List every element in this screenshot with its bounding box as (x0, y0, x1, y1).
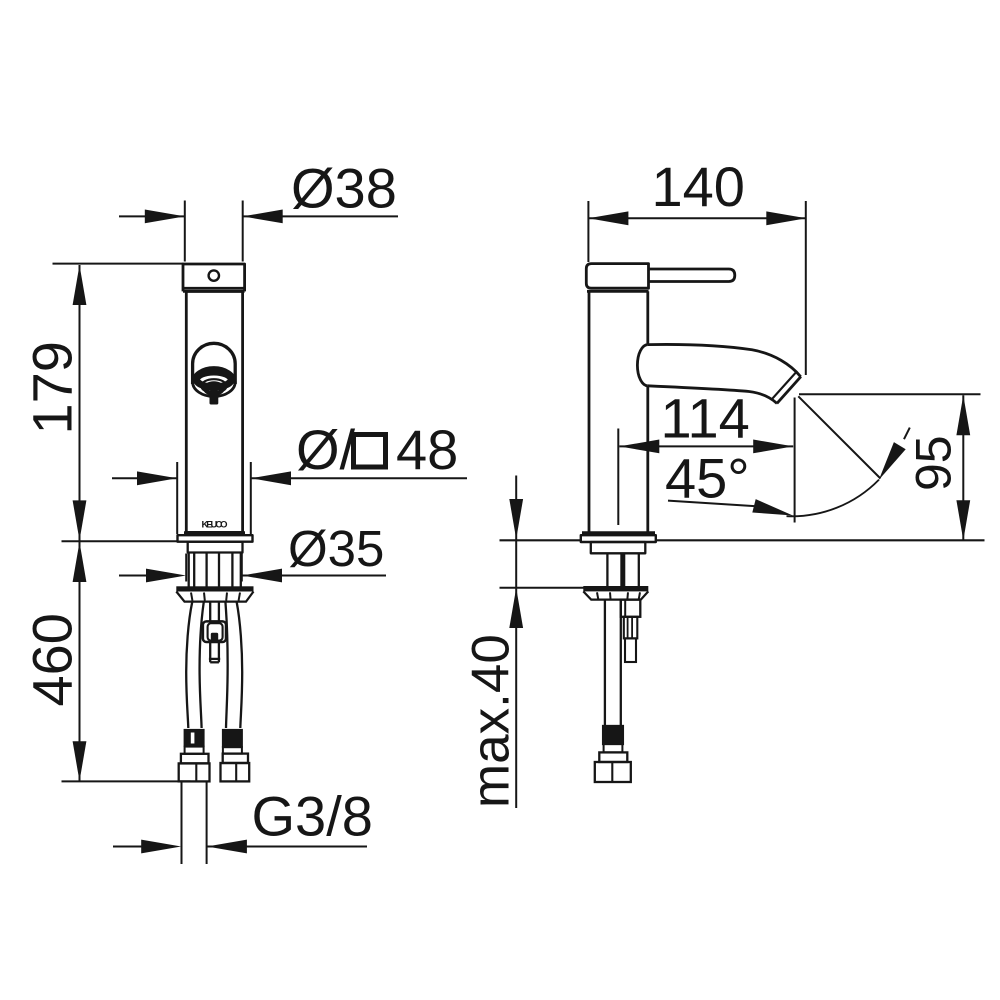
svg-text:95: 95 (906, 435, 962, 491)
svg-text:179: 179 (21, 341, 84, 434)
svg-text:114: 114 (661, 387, 750, 450)
svg-text:45°: 45° (665, 447, 750, 510)
svg-text:KEUCO: KEUCO (202, 520, 228, 531)
svg-text:Ø35: Ø35 (288, 520, 384, 577)
svg-text:48: 48 (396, 418, 458, 481)
svg-text:Ø/: Ø/ (296, 418, 356, 481)
svg-text:140: 140 (652, 155, 745, 218)
svg-text:max.40: max.40 (462, 634, 521, 808)
svg-text:Ø38: Ø38 (291, 157, 397, 220)
svg-text:460: 460 (21, 613, 84, 706)
svg-text:G3/8: G3/8 (252, 785, 373, 848)
